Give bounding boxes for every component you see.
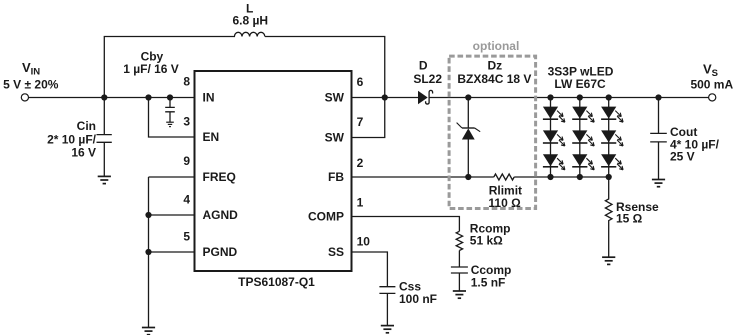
- svg-text:SL22: SL22: [413, 72, 442, 86]
- svg-text:EN: EN: [203, 130, 220, 144]
- svg-text:LW E67C: LW E67C: [554, 77, 606, 91]
- wire top loop left: [104, 37, 235, 98]
- node dots on input rail: [101, 94, 661, 255]
- LED D1: [543, 107, 565, 123]
- svg-text:15 Ω: 15 Ω: [616, 211, 643, 225]
- svg-text:7: 7: [357, 115, 364, 129]
- svg-text:D: D: [419, 59, 428, 73]
- wire LED string 1: [550, 98, 552, 178]
- LED D8: [601, 130, 623, 146]
- ground (Ccomp): [453, 291, 466, 298]
- terminal VS: [709, 94, 716, 101]
- svg-text:BZX84C 18 V: BZX84C 18 V: [457, 72, 531, 86]
- svg-text:IN: IN: [203, 91, 215, 105]
- wire LED string 2: [579, 98, 581, 178]
- svg-text:TPS61087-Q1: TPS61087-Q1: [238, 275, 315, 289]
- wire FREQ: [149, 176, 195, 178]
- svg-text:4: 4: [183, 193, 190, 207]
- node (EN junction): [145, 94, 151, 100]
- LED D7: [601, 107, 623, 123]
- svg-text:SW: SW: [325, 91, 345, 105]
- svg-text:51 kΩ: 51 kΩ: [470, 233, 503, 247]
- wire SS to Css: [352, 252, 388, 287]
- LED D5: [572, 130, 594, 146]
- wire output rail diode to VS: [429, 97, 708, 99]
- resistor Rlimit: [494, 174, 514, 180]
- svg-text:2: 2: [357, 156, 364, 170]
- node (LED1 top): [547, 94, 553, 100]
- node (LED2 top): [577, 94, 583, 100]
- wire zener branch: [467, 98, 469, 129]
- ground (Cin): [98, 176, 111, 183]
- node (Cby junction): [167, 94, 173, 100]
- wire EN connection: [149, 98, 195, 138]
- capacitor Cout: [650, 98, 667, 180]
- wire COMP to Rcomp: [352, 217, 460, 232]
- wire ground bus: [148, 177, 150, 327]
- node (Cout junction): [655, 94, 661, 100]
- svg-text:Cin: Cin: [77, 119, 96, 133]
- svg-text:5 V ± 20%: 5 V ± 20%: [3, 77, 59, 91]
- svg-text:PGND: PGND: [203, 245, 238, 259]
- node (zener bottom): [465, 174, 471, 180]
- capacitor Css: [379, 287, 395, 326]
- svg-text:optional: optional: [473, 39, 520, 53]
- node (LED3 top): [606, 94, 612, 100]
- wire FB line: [352, 176, 609, 178]
- node (PGND junction): [145, 249, 151, 255]
- node (LED1 bottom): [547, 174, 553, 180]
- LED D2: [543, 130, 565, 146]
- svg-text:Dz: Dz: [487, 59, 502, 73]
- svg-text:6: 6: [357, 75, 364, 89]
- svg-text:AGND: AGND: [203, 208, 239, 222]
- diode D SL22: [418, 90, 433, 104]
- svg-text:500 mA: 500 mA: [690, 77, 733, 91]
- zener diode Dz: [457, 123, 481, 140]
- node (Cin junction): [101, 94, 107, 100]
- LED D6: [572, 154, 594, 170]
- svg-text:3: 3: [183, 115, 190, 129]
- svg-text:25 V: 25 V: [670, 149, 695, 163]
- node (zener top): [465, 94, 471, 100]
- svg-text:1: 1: [357, 196, 364, 210]
- capacitor Cby: [165, 98, 175, 123]
- IC U1 TPS61087-Q1: [195, 71, 352, 271]
- svg-text:8: 8: [183, 75, 190, 89]
- resistor Rcomp: [456, 231, 462, 250]
- svg-text:1.5 nF: 1.5 nF: [471, 275, 506, 289]
- node (AGND junction): [145, 212, 151, 218]
- LED D3: [543, 154, 565, 170]
- ground (bus): [142, 328, 155, 335]
- node (SW junction): [382, 94, 388, 100]
- svg-text:COMP: COMP: [308, 210, 344, 224]
- optional dashed box: [449, 56, 535, 208]
- wire top loop right: [265, 37, 385, 98]
- node (LED2 bottom): [577, 174, 583, 180]
- wire SW pin 6 to diode: [352, 97, 419, 99]
- svg-text:16 V: 16 V: [71, 145, 96, 159]
- terminal VIN: [21, 94, 28, 101]
- svg-text:SW: SW: [325, 131, 345, 145]
- svg-text:100 nF: 100 nF: [399, 292, 437, 306]
- svg-text:110 Ω: 110 Ω: [488, 196, 521, 210]
- wire LED string 3: [608, 98, 610, 178]
- wire zener to FB rail: [467, 140, 469, 178]
- ground (Cout): [652, 180, 665, 187]
- LED D4: [572, 107, 594, 123]
- svg-text:9: 9: [183, 154, 190, 168]
- wire VIN rail to IN pin: [29, 97, 195, 99]
- node (LED3 bottom): [606, 174, 612, 180]
- svg-text:1 µF/ 16 V: 1 µF/ 16 V: [123, 62, 179, 76]
- inductor L coil: [234, 32, 264, 36]
- capacitor Ccomp: [451, 251, 468, 291]
- svg-text:6.8 µH: 6.8 µH: [232, 14, 268, 28]
- resistor Rsense: [605, 177, 612, 257]
- ground (Rsense): [602, 257, 615, 264]
- capacitor Cin: [97, 98, 112, 177]
- svg-text:FREQ: FREQ: [203, 170, 236, 184]
- svg-text:5: 5: [183, 230, 190, 244]
- wire PGND: [149, 251, 195, 253]
- svg-text:SS: SS: [328, 245, 344, 259]
- wire AGND: [149, 214, 195, 216]
- svg-text:FB: FB: [328, 170, 344, 184]
- wire SW pin 7 up to SW node: [352, 98, 385, 138]
- LED D9: [601, 154, 623, 170]
- svg-text:10: 10: [357, 234, 371, 248]
- ground (Cby): [166, 122, 174, 126]
- ground (Css): [381, 326, 394, 333]
